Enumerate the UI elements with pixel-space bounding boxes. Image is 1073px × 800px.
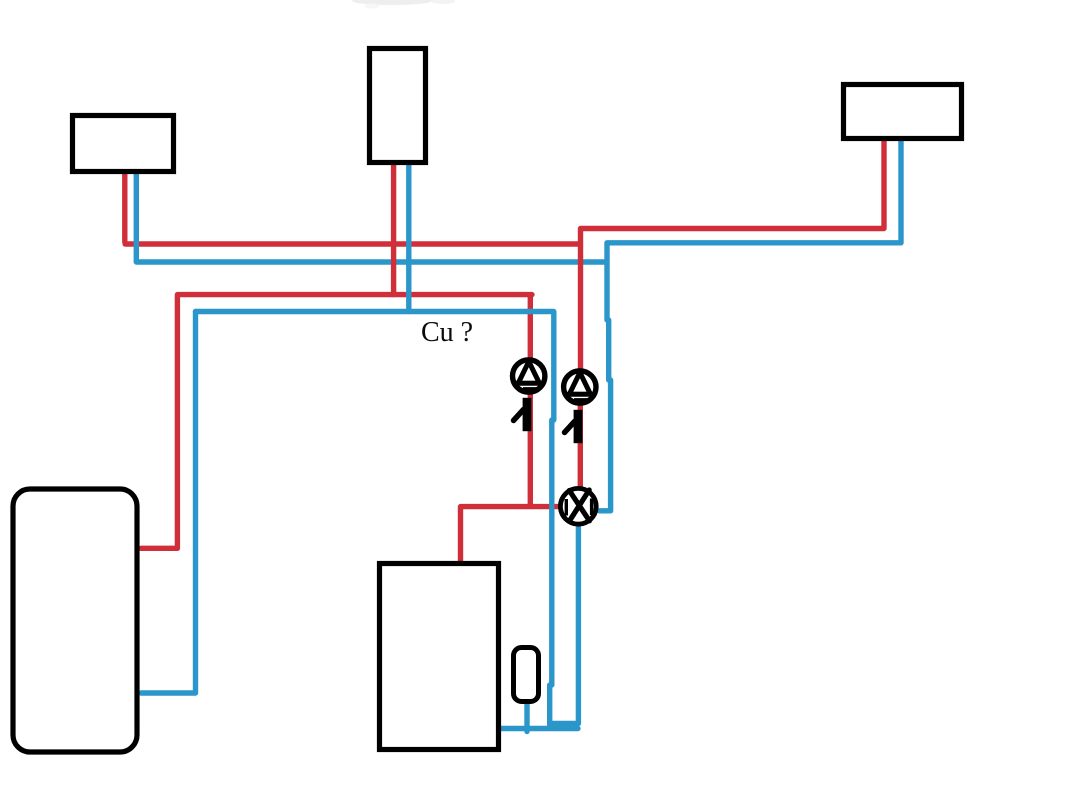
pipe blue boiler bottom manifold xyxy=(499,726,578,731)
tank (buffer cylinder) left xyxy=(13,489,137,752)
pipe red pump P2 to valve V1 xyxy=(578,405,583,488)
pipe blue return radiator2 drop xyxy=(406,162,411,312)
pipe red supply radiator2 drop xyxy=(391,162,396,295)
pipe blue vessel stub xyxy=(524,703,529,732)
valve V1 (circle with bowtie) xyxy=(560,488,596,524)
radiator R3 top-right xyxy=(844,85,962,139)
pipe blue valve V1 down to boiler manifold xyxy=(550,524,579,724)
pump P1 (circle with triangle) xyxy=(513,360,545,392)
label 1 under pump P2 xyxy=(565,410,583,443)
pipe red header to tank xyxy=(141,295,532,549)
pipe blue return header down to boiler bottom manifold xyxy=(196,312,554,728)
pipe red supply radiator3 drop, across and down to pump P2 xyxy=(581,139,885,369)
radiator R2 top-middle xyxy=(370,49,426,163)
pipe red supply radiator1 drop + main flow line xyxy=(125,170,580,244)
pipe red header down to pump P1 xyxy=(528,295,533,358)
svg-text:Cu ?: Cu ? xyxy=(421,317,473,348)
pipe blue tank return riser xyxy=(141,312,196,694)
pipe red pump P1 down, tee to boiler and valve V1 xyxy=(461,394,562,562)
expansion vessel xyxy=(514,648,539,702)
radiator R1 top-left xyxy=(73,116,174,172)
label 1 under pump P1 xyxy=(514,398,532,431)
pump P2 (circle with triangle) xyxy=(564,371,596,403)
cropped text smudge top xyxy=(352,0,455,9)
pipe blue return radiator1 drop + return line xyxy=(136,170,607,262)
boiler bottom-middle xyxy=(380,564,499,750)
pipe blue return radiator3 drop, across and down to valve V1 xyxy=(600,139,902,511)
